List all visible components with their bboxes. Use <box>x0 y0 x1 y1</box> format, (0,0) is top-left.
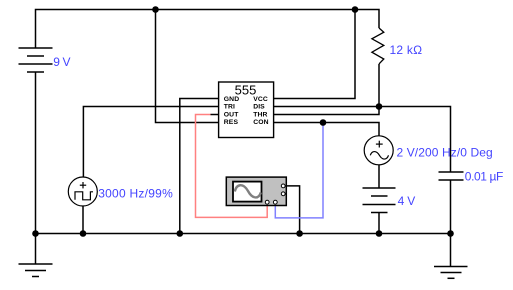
svg-text:THR: THR <box>253 111 267 118</box>
svg-text:4 V: 4 V <box>398 194 416 208</box>
svg-text:2 V/200 Hz/0 Deg: 2 V/200 Hz/0 Deg <box>397 146 493 160</box>
svg-text:OUT: OUT <box>224 111 239 118</box>
svg-text:0.01 µF: 0.01 µF <box>465 170 503 184</box>
svg-text:12 kΩ: 12 kΩ <box>390 43 423 57</box>
svg-text:RES: RES <box>224 119 239 126</box>
svg-text:9 V: 9 V <box>53 55 70 69</box>
svg-text:3000 Hz/99%: 3000 Hz/99% <box>98 186 173 200</box>
svg-text:VCC: VCC <box>253 96 268 103</box>
svg-text:DIS: DIS <box>253 104 265 111</box>
svg-text:GND: GND <box>224 96 239 103</box>
svg-text:TRI: TRI <box>224 104 235 111</box>
svg-text:CON: CON <box>253 119 268 126</box>
